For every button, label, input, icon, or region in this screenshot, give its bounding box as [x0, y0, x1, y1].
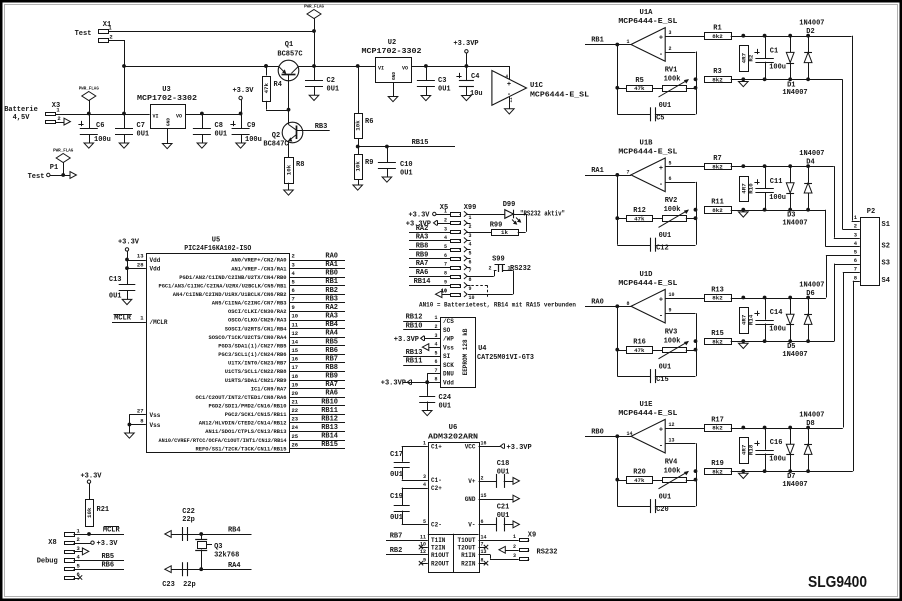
svg-text:GND: GND [391, 72, 397, 80]
svg-text:0U1: 0U1 [659, 494, 672, 502]
svg-text:0U1: 0U1 [109, 293, 122, 301]
svg-text:RB2: RB2 [325, 287, 338, 295]
svg-text:9: 9 [669, 308, 672, 314]
svg-text:OSCI/CLKI/CN30/RA2: OSCI/CLKI/CN30/RA2 [228, 309, 287, 315]
svg-text:8k2: 8k2 [712, 425, 723, 432]
svg-text:GND: GND [465, 496, 476, 503]
svg-text:21: 21 [292, 399, 299, 406]
svg-text:SLG9400: SLG9400 [808, 574, 867, 591]
svg-text:10: 10 [441, 288, 447, 294]
svg-text:5: 5 [469, 250, 472, 256]
svg-text:6: 6 [669, 176, 672, 182]
svg-text:R1IN: R1IN [461, 552, 476, 559]
svg-text:10: 10 [669, 292, 675, 298]
svg-text:S2: S2 [882, 243, 890, 251]
svg-text:R2IN: R2IN [461, 561, 476, 568]
svg-text:11: 11 [420, 534, 426, 540]
svg-text:20: 20 [292, 390, 299, 397]
svg-text:RB3: RB3 [325, 295, 338, 303]
svg-text:RV1: RV1 [665, 67, 678, 75]
svg-text:C17: C17 [390, 451, 403, 459]
svg-text:0U1: 0U1 [400, 170, 413, 178]
svg-text:4: 4 [469, 241, 472, 247]
svg-text:U1RTS/SDA1/CN21/RB9: U1RTS/SDA1/CN21/RB9 [225, 378, 287, 384]
svg-text:7: 7 [627, 169, 630, 175]
svg-text:8k2: 8k2 [712, 468, 723, 475]
svg-text:4,5V: 4,5V [13, 114, 31, 122]
svg-text:3: 3 [434, 333, 437, 339]
svg-text:RB10: RB10 [321, 398, 338, 406]
svg-text:10k: 10k [355, 120, 362, 131]
svg-text:RA6: RA6 [416, 269, 429, 277]
svg-text:Debug: Debug [37, 558, 58, 566]
svg-text:V-: V- [468, 522, 475, 529]
svg-text:11: 11 [292, 321, 299, 328]
svg-text:11: 11 [510, 97, 514, 103]
svg-text:V+: V+ [468, 478, 476, 485]
svg-text:MCP6444-E_SL: MCP6444-E_SL [618, 280, 677, 288]
svg-text:GND: GND [165, 118, 171, 126]
svg-text:SI: SI [443, 353, 451, 360]
svg-text:S1: S1 [882, 221, 890, 229]
svg-text:2: 2 [488, 266, 491, 272]
svg-text:2: 2 [57, 115, 60, 122]
svg-text:"RS232 aktiv": "RS232 aktiv" [520, 211, 565, 219]
svg-text:10u: 10u [470, 90, 483, 98]
svg-text:100k: 100k [664, 467, 681, 475]
svg-text:C4: C4 [471, 73, 479, 81]
svg-text:1: 1 [513, 534, 516, 540]
svg-text:R5: R5 [635, 77, 643, 85]
svg-text:RV2: RV2 [665, 197, 678, 205]
svg-text:SCK: SCK [443, 362, 454, 369]
svg-text:U2: U2 [388, 39, 396, 47]
svg-text:6: 6 [434, 359, 437, 365]
svg-text:-: - [659, 181, 663, 189]
svg-text:7: 7 [469, 268, 472, 274]
svg-text:VI: VI [378, 66, 384, 72]
svg-text:S99: S99 [492, 256, 505, 264]
svg-text:0U1: 0U1 [497, 469, 510, 477]
svg-text:C22: C22 [182, 508, 195, 516]
svg-text:8: 8 [434, 377, 437, 383]
svg-text:R19: R19 [711, 460, 724, 468]
svg-text:1: 1 [423, 441, 426, 447]
svg-text:R10: R10 [748, 183, 755, 194]
svg-text:PGD1/AN2/C1IND/C2INB/U2TX/CN4/: PGD1/AN2/C1IND/C2INB/U2TX/CN4/RB0 [179, 275, 286, 281]
svg-text:PGD3/SDA1(1)/CN27/RB5: PGD3/SDA1(1)/CN27/RB5 [218, 344, 286, 350]
svg-text:RB2: RB2 [390, 547, 403, 555]
svg-text:U1E: U1E [640, 401, 654, 409]
svg-text:S4: S4 [882, 277, 890, 285]
svg-text:D8: D8 [806, 420, 814, 428]
svg-text:4R7: 4R7 [740, 314, 747, 325]
svg-text:1N4007: 1N4007 [799, 282, 824, 290]
svg-text:+: + [659, 426, 663, 434]
svg-text:0U1: 0U1 [327, 86, 340, 94]
svg-text:-: - [659, 51, 663, 59]
svg-text:D6: D6 [806, 290, 814, 298]
svg-text:RB8: RB8 [416, 242, 429, 250]
svg-text:RV3: RV3 [665, 328, 678, 336]
svg-text:10: 10 [469, 295, 475, 301]
svg-text:R1OUT: R1OUT [431, 552, 449, 559]
svg-text:R14: R14 [748, 314, 755, 325]
svg-text:MCP6444-E_SL: MCP6444-E_SL [530, 92, 589, 100]
svg-text:14: 14 [481, 534, 487, 540]
svg-text:/CS: /CS [443, 318, 454, 325]
svg-text:AN10/CVREF/RTCC/OCFA/C1OUT/INT: AN10/CVREF/RTCC/OCFA/C1OUT/INT1/CN12/RB1… [159, 438, 287, 444]
svg-text:15: 15 [292, 347, 299, 354]
svg-text:R6: R6 [365, 118, 373, 126]
svg-text:4: 4 [423, 482, 426, 488]
svg-text:C14: C14 [770, 309, 783, 317]
svg-text:+3.3VP: +3.3VP [453, 40, 478, 48]
svg-text:+3.3V: +3.3V [232, 87, 254, 95]
svg-text:AN10 = Batterietest, RB14 mit: AN10 = Batterietest, RB14 mit RA15 verbu… [419, 302, 576, 309]
svg-text:RB0: RB0 [325, 270, 338, 278]
svg-text:+3.3VP: +3.3VP [507, 444, 532, 452]
svg-text:47k: 47k [634, 477, 645, 484]
svg-text:RA4: RA4 [228, 562, 241, 570]
svg-text:C12: C12 [656, 245, 669, 253]
svg-text:Test: Test [75, 30, 92, 38]
svg-text:8: 8 [627, 301, 630, 307]
svg-text:R3: R3 [713, 68, 721, 76]
svg-text:3: 3 [423, 474, 426, 480]
svg-text:Vdd: Vdd [150, 266, 161, 273]
svg-text:0U1: 0U1 [390, 514, 403, 522]
svg-text:0U1: 0U1 [659, 364, 672, 372]
svg-text:R1: R1 [713, 25, 721, 33]
svg-text:IC1/CN9/RA7: IC1/CN9/RA7 [251, 386, 287, 392]
svg-text:RA0: RA0 [325, 253, 338, 261]
svg-text:/WP: /WP [443, 336, 454, 343]
svg-text:3: 3 [469, 233, 472, 239]
svg-text:RB6: RB6 [325, 347, 338, 355]
svg-text:6: 6 [854, 257, 857, 264]
svg-text:4: 4 [434, 342, 437, 348]
svg-text:C13: C13 [109, 276, 122, 284]
svg-text:0U1: 0U1 [497, 512, 510, 520]
svg-text:RB1: RB1 [325, 278, 338, 286]
svg-text:3: 3 [669, 30, 672, 36]
svg-text:100k: 100k [664, 76, 681, 84]
svg-text:Q2: Q2 [272, 132, 280, 140]
svg-text:U1D: U1D [640, 271, 654, 279]
svg-text:MCP6444-E_SL: MCP6444-E_SL [618, 149, 677, 157]
svg-text:Q1: Q1 [285, 41, 293, 49]
svg-text:0U1: 0U1 [438, 86, 451, 94]
svg-text:C1: C1 [770, 47, 778, 55]
svg-text:AN11/SDO1/CTPLS/CN13/RB13: AN11/SDO1/CTPLS/CN13/RB13 [205, 429, 286, 435]
svg-text:AN1/VREF-/CN3/RA1: AN1/VREF-/CN3/RA1 [231, 266, 286, 272]
svg-text:PIC24F16KA102-ISO: PIC24F16KA102-ISO [184, 245, 251, 253]
svg-text:22p: 22p [182, 516, 195, 524]
svg-text:C23: C23 [162, 581, 175, 589]
svg-text:+3.3V: +3.3V [97, 540, 119, 548]
svg-text:2: 2 [513, 544, 516, 550]
svg-text:RB4: RB4 [325, 321, 338, 329]
svg-text:8k2: 8k2 [712, 338, 723, 345]
svg-text:13: 13 [137, 253, 144, 260]
svg-text:R11: R11 [711, 199, 724, 207]
svg-text:Batterie: Batterie [4, 106, 38, 114]
svg-text:T1IN: T1IN [431, 537, 446, 544]
svg-text:23: 23 [292, 416, 299, 423]
svg-text:C24: C24 [439, 394, 452, 402]
svg-text:PGC3/SCL1(1)/CN24/RB6: PGC3/SCL1(1)/CN24/RB6 [218, 352, 286, 358]
svg-text:D2: D2 [806, 28, 814, 36]
svg-text:MCLR: MCLR [103, 527, 121, 535]
svg-text:CAT25M01VI-GT3: CAT25M01VI-GT3 [477, 354, 534, 362]
svg-text:U1TX/INT0/CN23/RB7: U1TX/INT0/CN23/RB7 [228, 361, 287, 367]
svg-text:4: 4 [444, 235, 447, 241]
svg-text:RA6: RA6 [325, 390, 338, 398]
svg-text:MCP1702-3302: MCP1702-3302 [137, 95, 197, 103]
svg-text:Vdd: Vdd [443, 380, 454, 387]
svg-text:+3.3V: +3.3V [118, 239, 140, 247]
svg-text:100u: 100u [769, 455, 786, 463]
svg-text:RB13: RB13 [321, 424, 338, 432]
svg-text:47k: 47k [634, 85, 645, 92]
svg-text:T1OUT: T1OUT [457, 537, 475, 544]
svg-text:8k2: 8k2 [712, 295, 723, 302]
svg-text:8k2: 8k2 [712, 33, 723, 40]
svg-text:EEPROM 128 kB: EEPROM 128 kB [462, 328, 469, 375]
svg-text:C6: C6 [96, 122, 104, 130]
svg-text:BC857C: BC857C [277, 51, 302, 59]
svg-text:-: - [659, 313, 663, 321]
svg-text:+3.3VP: +3.3VP [406, 221, 431, 229]
svg-text:MCLR: MCLR [114, 314, 132, 322]
svg-text:PGD2/SDI1/PMD2/CN16/RB10: PGD2/SDI1/PMD2/CN16/RB10 [209, 404, 287, 410]
svg-text:RB4: RB4 [228, 527, 241, 535]
svg-text:1N4007: 1N4007 [799, 412, 824, 420]
svg-text:8: 8 [481, 558, 484, 564]
svg-text:R8: R8 [296, 161, 304, 169]
svg-text:13: 13 [669, 438, 675, 444]
svg-text:+3.3VP: +3.3VP [381, 380, 406, 388]
svg-text:+3.3VP: +3.3VP [394, 336, 419, 344]
svg-text:U1A: U1A [640, 9, 654, 17]
svg-text:7: 7 [292, 296, 295, 303]
svg-text:RB9: RB9 [325, 373, 338, 381]
svg-text:0U1: 0U1 [137, 131, 150, 139]
svg-text:1: 1 [444, 209, 447, 215]
svg-text:SO: SO [443, 327, 451, 334]
svg-text:1N4007: 1N4007 [782, 219, 807, 227]
svg-text:+: + [659, 165, 663, 173]
svg-text:2: 2 [669, 46, 672, 52]
svg-text:R12: R12 [633, 207, 646, 215]
svg-text:Vss: Vss [443, 344, 454, 351]
svg-text:RB11: RB11 [406, 358, 423, 366]
svg-text:47k: 47k [263, 82, 270, 93]
svg-text:R18: R18 [748, 444, 755, 455]
svg-text:C2-: C2- [431, 522, 442, 529]
svg-text:RA1: RA1 [591, 167, 604, 175]
svg-text:6: 6 [292, 287, 295, 294]
svg-text:RB8: RB8 [325, 364, 338, 372]
svg-text:22: 22 [292, 407, 299, 414]
svg-text:C15: C15 [656, 376, 669, 384]
svg-text:U4: U4 [478, 345, 486, 353]
svg-text:DNU: DNU [443, 371, 454, 378]
svg-text:16: 16 [292, 356, 299, 363]
svg-text:7: 7 [481, 542, 484, 548]
svg-text:RA0: RA0 [591, 299, 604, 307]
svg-text:U3: U3 [162, 86, 170, 94]
svg-text:26: 26 [292, 441, 299, 448]
svg-text:100u: 100u [769, 194, 786, 202]
svg-text:RV4: RV4 [665, 458, 678, 466]
svg-text:RB5: RB5 [101, 553, 114, 561]
svg-text:RB10: RB10 [406, 323, 423, 331]
svg-text:19: 19 [292, 381, 299, 388]
svg-text:9: 9 [469, 286, 472, 292]
svg-text:D99: D99 [503, 201, 516, 209]
svg-text:RB6: RB6 [101, 562, 114, 570]
svg-text:R2OUT: R2OUT [431, 561, 449, 568]
svg-text:2: 2 [109, 34, 112, 41]
svg-text:C2: C2 [327, 77, 335, 85]
svg-text:9: 9 [444, 280, 447, 286]
svg-text:+: + [659, 35, 663, 43]
svg-text:REFO/SS1/T2CK/T3CK/CN11/RB15: REFO/SS1/T2CK/T3CK/CN11/RB15 [196, 446, 287, 452]
svg-text:R7: R7 [713, 155, 721, 163]
svg-text:C11: C11 [770, 178, 783, 186]
svg-text:25: 25 [292, 433, 299, 440]
svg-text:PWR_FLAG: PWR_FLAG [79, 88, 100, 92]
svg-text:RB9: RB9 [416, 251, 429, 259]
svg-text:100k: 100k [664, 337, 681, 345]
svg-text:RB1: RB1 [591, 37, 604, 45]
svg-text:1N4007: 1N4007 [782, 481, 807, 489]
svg-text:1N4007: 1N4007 [782, 351, 807, 359]
svg-text:8: 8 [469, 277, 472, 283]
svg-text:RB0: RB0 [591, 429, 604, 437]
svg-text:10k: 10k [86, 507, 93, 518]
svg-text:5: 5 [444, 244, 447, 250]
svg-text:C9: C9 [247, 122, 255, 130]
svg-text:C7: C7 [137, 122, 145, 130]
svg-text:C1-: C1- [431, 477, 442, 484]
svg-text:RB13: RB13 [406, 349, 423, 357]
svg-text:P1: P1 [50, 164, 58, 172]
svg-text:AN4/C1INB/C2IND/U1RX/U1BCLK/CN: AN4/C1INB/C2IND/U1RX/U1BCLK/CN6/RB2 [173, 292, 287, 298]
svg-text:RB7: RB7 [325, 355, 338, 363]
svg-text:RB7: RB7 [390, 533, 403, 541]
svg-text:100u: 100u [769, 64, 786, 72]
svg-text:RB11: RB11 [321, 407, 338, 415]
svg-text:2: 2 [469, 224, 472, 230]
svg-text:C18: C18 [497, 460, 510, 468]
svg-text:P2: P2 [867, 208, 875, 216]
svg-text:32k768: 32k768 [214, 552, 239, 560]
svg-text:1N4007: 1N4007 [782, 89, 807, 97]
svg-text:U5: U5 [212, 237, 220, 245]
svg-text:VO: VO [402, 66, 408, 72]
svg-text:RB12: RB12 [321, 416, 338, 424]
svg-text:0U1: 0U1 [659, 102, 672, 110]
svg-text:OSCO/CLKO/CN29/RA3: OSCO/CLKO/CN29/RA3 [228, 318, 287, 324]
svg-text:2: 2 [292, 253, 295, 260]
svg-text:RB12: RB12 [406, 314, 423, 322]
svg-text:+3.3V: +3.3V [80, 473, 102, 481]
svg-text:VO: VO [176, 114, 182, 120]
svg-text:RS232: RS232 [537, 549, 558, 557]
svg-text:X8: X8 [48, 539, 56, 547]
svg-text:R20: R20 [633, 469, 646, 477]
svg-text:RA7: RA7 [325, 381, 338, 389]
svg-text:9: 9 [423, 558, 426, 564]
svg-text:D4: D4 [806, 159, 814, 167]
svg-text:2: 2 [854, 223, 857, 230]
svg-text:24: 24 [292, 424, 299, 431]
svg-text:100u: 100u [245, 136, 262, 144]
svg-text:4R7: 4R7 [740, 444, 747, 455]
svg-text:U1B: U1B [640, 140, 654, 148]
svg-text:2: 2 [77, 536, 80, 543]
svg-text:R9: R9 [365, 159, 373, 167]
svg-text:PWR_FLAG: PWR_FLAG [304, 6, 325, 10]
svg-text:RB14: RB14 [321, 433, 338, 441]
svg-text:0U1: 0U1 [215, 131, 228, 139]
svg-text:X9: X9 [528, 532, 536, 540]
svg-text:R15: R15 [711, 330, 724, 338]
svg-text:0U1: 0U1 [659, 232, 672, 240]
svg-text:RA3: RA3 [416, 233, 429, 241]
svg-text:C5: C5 [656, 114, 664, 122]
svg-text:ADM3202ARN: ADM3202ARN [428, 434, 478, 442]
svg-text:2: 2 [444, 217, 447, 223]
svg-text:R99: R99 [490, 222, 503, 230]
svg-text:1N4007: 1N4007 [799, 20, 824, 28]
svg-text:R4: R4 [274, 81, 282, 89]
svg-text:AN5/C1INA/C2INC/CN7/RB3: AN5/C1INA/C2INC/CN7/RB3 [212, 301, 287, 307]
svg-text:14: 14 [292, 339, 299, 346]
svg-text:C19: C19 [390, 493, 403, 501]
svg-text:+3.3V: +3.3V [408, 212, 430, 220]
svg-text:18: 18 [292, 373, 299, 380]
svg-text:VCC: VCC [465, 443, 476, 450]
svg-text:Vss: Vss [150, 412, 161, 419]
svg-text:PWR_FLAG: PWR_FLAG [53, 150, 74, 154]
svg-text:2: 2 [481, 475, 484, 481]
svg-text:47k: 47k [634, 347, 645, 354]
svg-text:U1C: U1C [530, 82, 544, 90]
svg-text:C2+: C2+ [431, 485, 442, 492]
svg-text:T2OUT: T2OUT [457, 544, 475, 551]
svg-text:8k2: 8k2 [712, 163, 723, 170]
svg-text:3: 3 [513, 553, 516, 559]
svg-text:PGC2/SCK1/CN15/RB11: PGC2/SCK1/CN15/RB11 [225, 412, 287, 418]
svg-text:8k2: 8k2 [712, 207, 723, 214]
svg-text:RB15: RB15 [321, 441, 338, 449]
svg-text:10: 10 [292, 313, 299, 320]
svg-text:C3: C3 [438, 77, 446, 85]
svg-text:C10: C10 [400, 161, 413, 169]
svg-text:5: 5 [669, 160, 672, 166]
svg-text:PGC1/AN3/C1INC/C2INA/U2RX/U2BC: PGC1/AN3/C1INC/C2INA/U2RX/U2BCLK/CN5/RB1 [159, 283, 287, 289]
svg-text:RA4: RA4 [325, 330, 338, 338]
svg-text:R21: R21 [97, 506, 110, 514]
svg-text:RB5: RB5 [325, 338, 338, 346]
svg-text:RA3: RA3 [325, 313, 338, 321]
svg-text:T2IN: T2IN [431, 544, 446, 551]
svg-text:0U1: 0U1 [439, 403, 452, 411]
